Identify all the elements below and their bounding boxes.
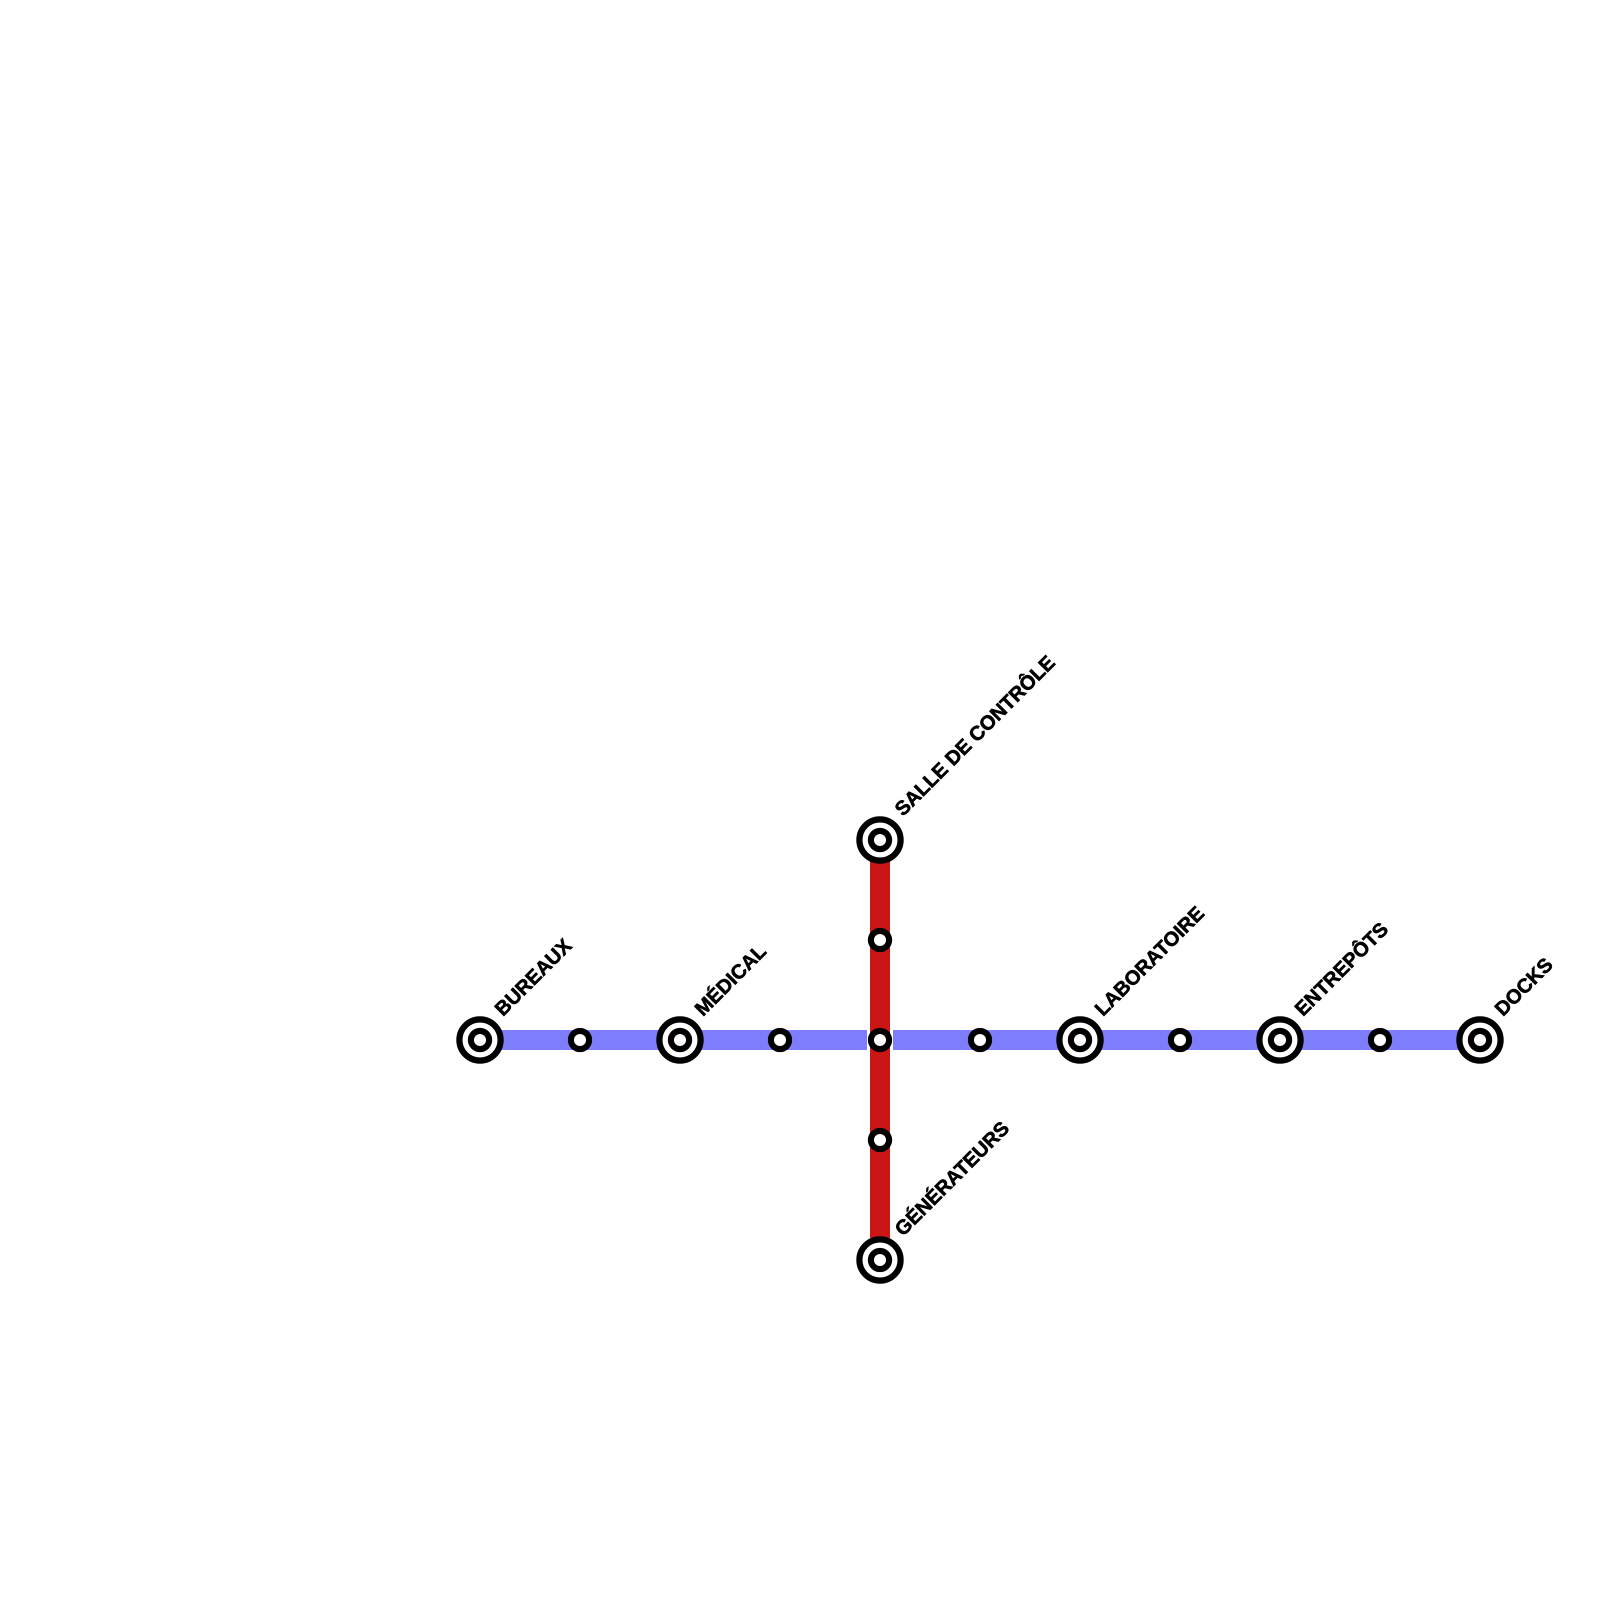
station DOCKS: [1459, 1019, 1500, 1060]
petite station 1 (580,1040): [571, 1031, 589, 1049]
petite station 2 (780,1040): [771, 1031, 789, 1049]
station MÉDICAL: [659, 1019, 700, 1060]
petite station correspondance (880,1040): [871, 1031, 889, 1049]
ligne bleue (horizontale): [480, 1030, 1480, 1050]
petite station 5 (1380,1040): [1371, 1031, 1389, 1049]
contour blanc de la ligne rouge: [867, 840, 893, 1260]
station SALLE DE CONTRÔLE: [859, 819, 900, 860]
petite station rouge 1 (880,940): [871, 931, 889, 949]
station BUREAUX: [459, 1019, 500, 1060]
ligne rouge (verticale): [870, 840, 890, 1260]
station LABORATOIRE: [1059, 1019, 1100, 1060]
station ENTREPÔTS: [1259, 1019, 1300, 1060]
station GÉNÉRATEURS: [859, 1239, 900, 1280]
petite station 4 (1180,1040): [1171, 1031, 1189, 1049]
petite station rouge 2 (880,1140): [871, 1131, 889, 1149]
petite station 3 (980,1040): [971, 1031, 989, 1049]
